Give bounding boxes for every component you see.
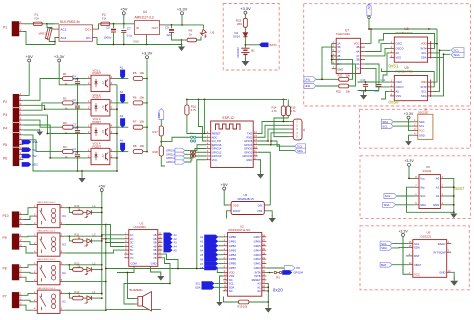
module PS1 HLK-PM01 — [55, 20, 98, 41]
wire — [409, 135, 414, 139]
wire com — [117, 270, 134, 273]
net flag BAT — [380, 262, 392, 267]
svg-text:R2: R2 — [63, 97, 67, 101]
svg-text:OSCI: OSCI — [396, 80, 403, 84]
wire — [64, 281, 106, 283]
svg-text:0.1u: 0.1u — [73, 126, 79, 130]
svg-text:SCL: SCL — [195, 282, 201, 286]
jumper J5 — [190, 155, 196, 162]
wire uln b7 — [162, 258, 170, 284]
wire 3v3 rail — [146, 61, 148, 152]
relay K3 SRD-05VDC — [33, 231, 66, 257]
wire — [69, 293, 72, 298]
svg-text:OUT: OUT — [152, 26, 159, 30]
svg-text:P2: P2 — [3, 100, 7, 104]
wire — [432, 53, 439, 92]
ic U6 24C32 — [419, 165, 440, 209]
svg-text:GPIO4: GPIO4 — [244, 143, 253, 147]
svg-text:GPB3: GPB3 — [229, 248, 237, 252]
svg-text:A2: A2 — [174, 237, 178, 241]
wire — [96, 38, 98, 45]
wire — [227, 211, 229, 219]
svg-text:A1: A1 — [174, 233, 178, 237]
svg-text:GPIO16: GPIO16 — [212, 143, 222, 147]
wire — [23, 247, 33, 253]
junction — [77, 151, 79, 153]
capacitor C11 — [374, 78, 386, 93]
svg-text:SRD-05VDC-SL-C: SRD-05VDC-SL-C — [37, 202, 56, 204]
wire — [143, 151, 147, 153]
wire relay rail1 — [101, 207, 103, 296]
capacitor C3 — [73, 123, 81, 141]
capacitor C4 — [73, 147, 81, 165]
junction — [270, 121, 284, 146]
resistor R9 — [182, 29, 202, 42]
junction — [105, 224, 107, 226]
svg-text:P10: P10 — [3, 214, 9, 218]
net flag GPB6 — [200, 261, 223, 266]
svg-text:INT#: INT# — [421, 47, 427, 51]
svg-text:SDA: SDA — [421, 56, 427, 60]
junction — [49, 157, 51, 159]
wire — [114, 157, 117, 159]
svg-text:SRD-05VDC-SL-C: SRD-05VDC-SL-C — [37, 288, 56, 290]
svg-text:GPA3: GPA3 — [254, 253, 261, 257]
svg-text:+3.3V: +3.3V — [142, 51, 153, 56]
svg-text:F1A: F1A — [102, 18, 107, 21]
connector labels — [3, 100, 7, 160]
net flag GPB0 — [200, 235, 223, 240]
net flag INT — [266, 266, 300, 271]
ground — [178, 40, 185, 51]
wire — [392, 264, 408, 266]
svg-text:GPIO13: GPIO13 — [166, 161, 176, 164]
svg-text:GPB1: GPB1 — [229, 239, 237, 243]
svg-text:SCL: SCL — [385, 194, 391, 198]
svg-text:GPA6: GPA6 — [254, 239, 261, 243]
svg-text:EN1: EN1 — [32, 140, 38, 144]
svg-text:DOUT: DOUT — [233, 209, 241, 213]
junction — [321, 78, 323, 80]
svg-text:ESP-12: ESP-12 — [223, 116, 235, 120]
svg-text:A1: A1 — [257, 285, 261, 289]
ground — [23, 129, 43, 136]
resistor R5 — [133, 71, 145, 81]
net flag GPB2 — [200, 244, 223, 249]
junction — [101, 234, 103, 236]
wire — [392, 243, 408, 245]
resistor R7 — [133, 120, 145, 130]
wire — [204, 99, 206, 134]
svg-text:J1: J1 — [302, 128, 306, 132]
svg-text:SDA: SDA — [420, 203, 426, 207]
svg-text:R11: R11 — [75, 233, 80, 237]
svg-text:PC827: PC827 — [93, 144, 102, 148]
svg-text:R5: R5 — [133, 71, 137, 75]
power +3.3V — [54, 54, 65, 64]
ground — [269, 215, 276, 223]
wire — [23, 265, 33, 268]
wire — [244, 37, 246, 48]
net flag GPIO13 — [166, 160, 185, 164]
wire — [244, 27, 246, 32]
svg-text:SDA: SDA — [297, 149, 303, 153]
svg-text:COM: COM — [131, 261, 138, 265]
wire — [73, 78, 87, 80]
svg-text:+5V: +5V — [221, 182, 229, 187]
svg-text:GPA2: GPA2 — [254, 257, 261, 261]
svg-text:GND: GND — [433, 203, 439, 207]
svg-text:P5: P5 — [3, 143, 7, 147]
wire int — [379, 34, 435, 49]
svg-text:6C: 6C — [130, 252, 133, 256]
svg-text:SDA: SDA — [414, 246, 420, 250]
wire chpd — [199, 99, 207, 141]
svg-text:0x51: 0x51 — [389, 64, 399, 69]
wire rail — [187, 98, 287, 100]
ground — [78, 175, 85, 183]
svg-text:+5V: +5V — [98, 183, 106, 188]
wire — [23, 300, 33, 302]
resistor R21 — [338, 73, 351, 81]
net flag ADC — [22, 162, 38, 167]
power +3.3V — [404, 112, 414, 131]
svg-text:R17: R17 — [153, 130, 159, 134]
svg-text:GPB0: GPB0 — [229, 235, 237, 239]
wire — [23, 293, 33, 295]
svg-text:R3: R3 — [63, 121, 67, 125]
fuse F2 — [101, 13, 110, 25]
net flag GPIO16 — [166, 148, 185, 152]
ground — [360, 91, 367, 100]
svg-text:AMS1117-3.3: AMS1117-3.3 — [135, 16, 154, 20]
svg-text:P7: P7 — [3, 295, 7, 299]
svg-text:VSS: VSS — [257, 209, 263, 213]
junction — [101, 240, 103, 242]
svg-text:R18: R18 — [153, 150, 159, 154]
junction — [46, 23, 48, 25]
svg-text:A4: A4 — [120, 139, 124, 143]
net flag GPIO12 — [166, 156, 185, 160]
wire — [42, 23, 59, 25]
connector P10 — [3, 211, 24, 227]
svg-text:C5: C5 — [106, 26, 110, 30]
wire vdd feed — [217, 269, 223, 273]
svg-text:A4: A4 — [200, 248, 204, 252]
svg-text:+3.3V: +3.3V — [404, 112, 414, 116]
svg-text:10k: 10k — [140, 95, 145, 99]
svg-text:INT: INT — [296, 266, 301, 270]
wire — [114, 84, 117, 86]
wire — [332, 56, 356, 86]
svg-text:7C: 7C — [130, 256, 133, 260]
net flag SDA — [381, 119, 393, 124]
wire — [332, 43, 353, 79]
net flag A5 — [164, 248, 178, 253]
svg-text:CR2032: CR2032 — [236, 47, 240, 58]
svg-text:R22: R22 — [336, 90, 341, 94]
svg-text:GPIO12: GPIO12 — [166, 157, 176, 160]
wire — [23, 235, 33, 238]
U2 pins — [223, 234, 266, 293]
wire — [393, 121, 413, 123]
svg-text:R4: R4 — [63, 145, 67, 149]
svg-text:SRD-05VDC-SL-C: SRD-05VDC-SL-C — [37, 259, 56, 261]
ground — [157, 273, 164, 281]
junction — [436, 43, 438, 45]
svg-text:A5: A5 — [200, 253, 204, 257]
svg-text:6B: 6B — [153, 252, 156, 256]
svg-text:SCL: SCL — [421, 51, 427, 55]
wire — [358, 82, 379, 91]
svg-text:GPIO04: GPIO04 — [294, 271, 304, 275]
net flag ADC vert — [157, 109, 164, 120]
svg-text:1000u: 1000u — [104, 36, 112, 40]
ground — [405, 138, 412, 145]
wire — [128, 273, 135, 299]
svg-text:P6: P6 — [3, 156, 7, 160]
svg-text:VDD: VDD — [421, 80, 427, 84]
wire — [185, 145, 206, 151]
wire gnd — [151, 270, 161, 275]
ic U3 ULN2003 — [129, 221, 158, 266]
wire — [381, 91, 390, 99]
svg-text:ADC: ADC — [32, 163, 38, 167]
svg-text:R21: R21 — [338, 73, 343, 77]
svg-text:CH_PD: CH_PD — [212, 139, 221, 143]
svg-text:GND: GND — [419, 133, 425, 137]
wire — [266, 290, 269, 292]
wire — [69, 236, 72, 241]
svg-text:GPIO14: GPIO14 — [166, 153, 176, 156]
svg-text:0.1u: 0.1u — [73, 150, 79, 154]
power +5V — [26, 54, 34, 64]
wire — [114, 102, 128, 104]
svg-text:R19 10k: R19 10k — [238, 304, 248, 308]
wire — [432, 57, 443, 96]
resistor R12 — [73, 261, 83, 271]
svg-text:SRD-05VDC-SL-C: SRD-05VDC-SL-C — [37, 231, 56, 233]
svg-text:VDD: VDD — [229, 271, 235, 275]
svg-text:INT/SQW: INT/SQW — [434, 250, 446, 254]
connector P9 — [3, 233, 24, 249]
wire — [23, 64, 29, 96]
svg-text:GPIO5: GPIO5 — [244, 139, 253, 143]
wire long rail — [106, 268, 218, 270]
svg-text:0x50: 0x50 — [389, 100, 399, 105]
wire relay rail2 — [106, 224, 161, 310]
svg-text:SDA: SDA — [419, 120, 425, 124]
wire — [23, 277, 33, 281]
svg-text:4B: 4B — [153, 245, 156, 249]
junction — [77, 126, 79, 128]
junction — [439, 49, 445, 55]
svg-text:PC827: PC827 — [93, 96, 102, 100]
svg-text:0.1u: 0.1u — [73, 102, 79, 106]
varistor VAR1 — [39, 24, 56, 42]
buzzer BUZZER1 — [130, 288, 152, 311]
svg-text:MCP23017-E-SO: MCP23017-E-SO — [229, 228, 252, 232]
wire — [185, 149, 206, 155]
resistor R22 — [336, 84, 350, 94]
svg-text:A3: A3 — [200, 244, 204, 248]
svg-text:RST: RST — [414, 254, 420, 258]
wire — [23, 135, 43, 171]
svg-text:10k: 10k — [140, 120, 145, 124]
resistor R16 — [185, 99, 206, 133]
svg-text:GPIO0: GPIO0 — [244, 147, 253, 151]
junction — [146, 78, 148, 80]
svg-text:4B: 4B — [356, 45, 359, 49]
wire — [258, 129, 290, 141]
wire — [78, 170, 118, 172]
junction — [69, 207, 103, 209]
junction — [101, 212, 103, 214]
svg-text:SCL: SCL — [297, 144, 303, 148]
wire vcc — [197, 160, 206, 269]
net flag SCL — [380, 241, 392, 246]
capacitor C7 — [121, 24, 132, 45]
svg-text:SCL: SCL — [229, 282, 235, 286]
resistor R13 — [73, 290, 83, 300]
wire — [24, 32, 60, 45]
svg-text:32kHz: 32kHz — [438, 242, 447, 246]
relay K2 SRD-05VDC — [33, 259, 66, 285]
svg-text:U4: U4 — [143, 10, 147, 14]
svg-text:4.7k: 4.7k — [191, 108, 197, 112]
svg-text:R15: R15 — [291, 105, 296, 109]
wire — [77, 140, 79, 151]
resistor R14 — [272, 99, 286, 121]
wire — [316, 85, 338, 87]
ground — [450, 211, 457, 219]
junction — [160, 141, 162, 143]
svg-text:VCC: VCC — [212, 158, 218, 162]
junction — [331, 55, 333, 60]
ic U7 74HC132 — [336, 29, 361, 74]
svg-text:ADC: ADC — [212, 135, 218, 139]
wire — [393, 125, 413, 127]
svg-text:VDD: VDD — [421, 42, 427, 46]
power +3.3V rot — [367, 4, 371, 30]
wire — [445, 195, 454, 197]
svg-text:+3.3V: +3.3V — [54, 54, 65, 59]
wire — [69, 265, 72, 270]
net flag A1 — [164, 233, 178, 238]
wire — [271, 145, 295, 151]
svg-text:4A: 4A — [356, 50, 359, 54]
svg-text:HLK-PM01 5v: HLK-PM01 5v — [60, 20, 80, 24]
svg-text:VSS: VSS — [229, 274, 235, 278]
junction — [113, 44, 148, 46]
dashed box ds3231 — [360, 226, 469, 290]
wire opto return — [116, 85, 118, 171]
svg-text:R10: R10 — [75, 204, 80, 208]
wire — [258, 122, 290, 134]
svg-text:2B: 2B — [153, 237, 156, 241]
dashed box eeprom — [360, 156, 471, 219]
header U10 DSC1307 — [413, 108, 433, 140]
svg-text:GND: GND — [133, 40, 139, 44]
junction — [245, 44, 247, 46]
junction — [105, 309, 107, 311]
wire — [258, 125, 290, 137]
svg-text:SCL: SCL — [421, 90, 427, 94]
net flag GPB5 — [200, 257, 223, 262]
junction — [77, 102, 79, 104]
U7 pins — [332, 40, 365, 72]
svg-text:U6: U6 — [426, 165, 430, 169]
svg-text:VCC: VCC — [354, 42, 360, 46]
wire uln in0 — [102, 234, 125, 236]
power +5V — [120, 7, 128, 24]
svg-text:VBAT: VBAT — [414, 263, 421, 267]
optocoupler VO1.3 PC827 — [87, 117, 114, 140]
svg-text:GPB4: GPB4 — [229, 253, 237, 257]
junction — [69, 293, 103, 295]
svg-text:P9: P9 — [3, 236, 7, 240]
svg-text:R12: R12 — [75, 261, 80, 265]
svg-text:RESET: RESET — [252, 278, 261, 282]
svg-text:SCL: SCL — [454, 49, 460, 53]
svg-text:A0: A0 — [396, 51, 400, 55]
junction — [127, 272, 129, 274]
svg-text:GPA4: GPA4 — [254, 248, 261, 252]
power +3.3V — [177, 7, 188, 25]
svg-text:4C: 4C — [130, 245, 133, 249]
net flag SDA — [383, 202, 396, 207]
wire — [92, 240, 102, 242]
U9 pins — [390, 79, 432, 98]
net flag IN2 — [22, 154, 37, 159]
svg-text:P4: P4 — [3, 126, 7, 130]
net flag SDA — [295, 148, 306, 153]
svg-text:A1: A1 — [200, 235, 204, 239]
wire — [23, 216, 33, 219]
svg-text:GPB6: GPB6 — [229, 262, 237, 266]
resistor R17 — [153, 120, 164, 147]
svg-text:OSCO: OSCO — [396, 47, 404, 51]
net flag IN1 — [22, 147, 37, 152]
wire — [383, 53, 390, 82]
wire — [114, 151, 128, 153]
wire — [64, 264, 102, 266]
resistor R18 — [153, 146, 166, 166]
module U1 ESP-12 — [210, 116, 253, 167]
junction — [77, 78, 79, 80]
svg-text:SDA: SDA — [421, 94, 427, 98]
wire — [23, 125, 86, 158]
net flag SCL — [384, 194, 397, 199]
U8 pins — [390, 40, 432, 59]
relay K4 SRD-05VDC — [33, 202, 66, 228]
regulator U4 AMS1117-3.3 — [133, 10, 164, 45]
svg-text:WS2812B-V5: WS2812B-V5 — [238, 197, 255, 201]
wire uln b6 — [162, 254, 178, 268]
wire — [114, 126, 128, 128]
svg-text:RESET: RESET — [212, 132, 221, 136]
net flag EN1 — [22, 140, 38, 145]
svg-text:5B: 5B — [153, 248, 156, 252]
wire — [23, 103, 62, 110]
junction — [105, 281, 107, 283]
wire — [23, 208, 33, 215]
svg-text:3B: 3B — [153, 241, 156, 245]
wire +5V rail — [110, 23, 135, 25]
wire — [274, 118, 289, 137]
wire — [185, 152, 206, 158]
svg-text:A6: A6 — [200, 257, 204, 261]
